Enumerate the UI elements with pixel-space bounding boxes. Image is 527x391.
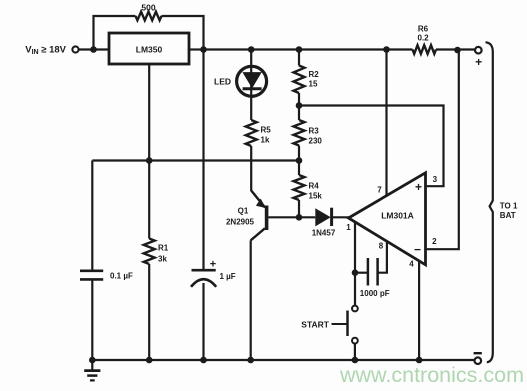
svg-text:R1: R1 [158, 244, 169, 253]
label 15k [309, 192, 323, 201]
label 500 [141, 3, 155, 13]
label 0.2 [417, 34, 429, 43]
resistor R6 [413, 45, 437, 54]
ground symbol [84, 360, 100, 380]
wire Q1 collector down [250, 240, 252, 360]
svg-text:TO 1: TO 1 [500, 201, 518, 210]
wire R1 upper [148, 161, 150, 239]
terminal battery minus [475, 357, 482, 364]
pin label 7 [377, 186, 382, 195]
svg-text:1000 pF: 1000 pF [360, 289, 390, 298]
label minus input [414, 243, 421, 257]
junction adj-R1 node [146, 157, 153, 164]
svg-text:8: 8 [379, 242, 384, 251]
resistor 500 (input-output) [136, 12, 162, 21]
svg-text:15: 15 [309, 80, 318, 89]
svg-text:START: START [301, 319, 330, 329]
svg-text:VIN ≥ 18V: VIN ≥ 18V [25, 45, 66, 57]
junction pin7 branch [383, 46, 390, 53]
wire pin 7 supply [385, 50, 387, 197]
wire switch to ground rail [354, 343, 356, 360]
wire bypass loop right [162, 16, 204, 50]
junction LM350 output node [200, 46, 207, 53]
wire pin 1 down [354, 222, 356, 306]
junction gnd-R1 [146, 357, 153, 364]
svg-text:R2: R2 [309, 70, 320, 79]
label 1000 pF [360, 289, 390, 298]
wire LM350 output [189, 48, 205, 50]
wire bypass loop left/top [94, 16, 136, 50]
svg-text:1: 1 [346, 223, 351, 232]
svg-text:R4: R4 [309, 182, 320, 191]
junction pin1-cap node [352, 269, 359, 276]
pin label 1 [346, 223, 351, 232]
regulator LM350 [109, 33, 189, 64]
capacitor 0.1 uF [80, 271, 103, 280]
wire left branch upper [91, 161, 93, 271]
label TO 1 [500, 201, 518, 210]
wire pin 8 down [378, 241, 387, 272]
pin label 3 [433, 175, 438, 184]
label 1N457 [312, 229, 336, 238]
svg-text:1k: 1k [261, 136, 270, 145]
terminal VIN input [72, 46, 78, 52]
junction gnd-switch [352, 357, 359, 364]
label R4 [309, 182, 320, 191]
svg-text:3: 3 [433, 175, 438, 184]
terminal battery plus [475, 47, 482, 54]
resistor R2 [294, 66, 305, 94]
wire R3 top [298, 106, 300, 121]
label minus [474, 352, 482, 354]
junction VIN node [90, 46, 97, 53]
label plus [475, 55, 482, 69]
svg-text:0.2: 0.2 [417, 34, 429, 43]
junction node R3-R4 (adj net) [296, 157, 303, 164]
junction LED branch [248, 46, 255, 53]
svg-text:4: 4 [409, 260, 414, 269]
junction gnd-cap1 [89, 357, 96, 364]
resistor R5 [246, 120, 257, 146]
wire 1uF branch upper [202, 50, 204, 271]
svg-text:www.cntronics.com: www.cntronics.com [339, 363, 524, 387]
svg-text:+: + [475, 55, 482, 69]
label R5 [261, 126, 272, 135]
junction node base-diode [296, 214, 303, 221]
label 230 [309, 137, 323, 146]
label 15 [309, 80, 318, 89]
svg-text:2: 2 [432, 237, 437, 246]
junction R2 branch [296, 46, 303, 53]
junction gnd-cap2 [200, 357, 207, 364]
svg-text:7: 7 [377, 186, 382, 195]
label 2N2905 [226, 218, 255, 227]
svg-text:R5: R5 [261, 126, 272, 135]
wire R3 bottom [298, 146, 300, 161]
svg-text:R6: R6 [418, 25, 429, 34]
svg-text:R3: R3 [309, 127, 320, 136]
wire left branch lower [91, 279, 93, 360]
label 1 uF [220, 272, 236, 281]
svg-text:3k: 3k [158, 255, 167, 264]
svg-text:2N2905: 2N2905 [226, 218, 255, 227]
label 1k [261, 136, 270, 145]
capacitor 1 uF polarized [191, 270, 216, 287]
wire pin 2 stub (to plus rail) [426, 50, 459, 249]
label 3k [158, 255, 167, 264]
junction pin2 branch [454, 47, 461, 54]
svg-text:LM350: LM350 [136, 45, 163, 55]
label R2 [309, 70, 320, 79]
pin label 4 [409, 260, 414, 269]
svg-text:15k: 15k [309, 192, 323, 201]
junction gnd-collector [247, 357, 254, 364]
pin label 8 [379, 242, 384, 251]
svg-text:LM301A: LM301A [381, 210, 414, 220]
wire R2 bottom [298, 93, 300, 106]
wire diode anode [299, 216, 315, 218]
label R3 [309, 127, 320, 136]
label LM301A [381, 210, 414, 220]
svg-text:1 µF: 1 µF [220, 272, 236, 281]
op-amp U1 LM301A [349, 173, 426, 265]
wire pin 4 down [418, 261, 420, 360]
LED D1 [237, 66, 267, 96]
svg-text:BAT: BAT [500, 211, 516, 220]
wire LED branch upper [250, 50, 252, 121]
wire R1 lower [148, 264, 150, 360]
label R6 [418, 25, 429, 34]
junction gnd-pin4 [416, 357, 423, 364]
wire cap to pin1 [355, 272, 368, 274]
label LM350 [136, 45, 163, 55]
wire pin 3 hook (to R2-R3 node) [299, 106, 444, 187]
bracket to battery [486, 42, 493, 362]
svg-text:500: 500 [141, 3, 155, 13]
svg-text:+: + [210, 258, 216, 270]
svg-text:+: + [415, 180, 422, 194]
wire adj net horizontal [92, 159, 299, 161]
wire top rail (output bus) [204, 48, 413, 50]
label BAT [500, 211, 516, 220]
label LED [214, 76, 231, 86]
label R1 [158, 244, 169, 253]
wire 1uF branch lower [202, 283, 204, 360]
label Q1 [238, 207, 249, 216]
label plus input [415, 180, 422, 194]
wire R4 bottom [298, 200, 300, 217]
svg-text:230: 230 [309, 137, 323, 146]
wire R2 top [298, 50, 300, 66]
svg-text:LED: LED [214, 76, 231, 86]
svg-text:Q1: Q1 [238, 207, 249, 216]
label VIN >= 18V [25, 45, 66, 57]
label START [301, 319, 330, 329]
resistor R3 [294, 120, 305, 146]
capacitor 1000 pF [368, 258, 378, 286]
wire R5 to Q1 emitter [250, 146, 252, 191]
svg-text:−: − [414, 243, 421, 257]
wire ground rail [92, 359, 474, 361]
diode D2 1N457 [315, 208, 331, 227]
switch S1 START pushbutton [348, 306, 358, 344]
wire VIN to LM350 input [79, 48, 109, 50]
junction node R2-R3 [296, 102, 303, 109]
wire diode cathode to op-amp [332, 216, 350, 218]
resistor R4 [294, 175, 305, 200]
label plus of 1uF [210, 258, 216, 270]
pin label 2 [432, 237, 437, 246]
wire START label dash [332, 323, 348, 325]
wire R4 top [298, 161, 300, 176]
wire adj pin of LM350 [148, 64, 150, 161]
transistor Q1 2N2905 [251, 191, 267, 241]
svg-text:0.1 µF: 0.1 µF [110, 271, 133, 280]
wire R6 to plus terminal [436, 48, 475, 50]
watermark www.cntronics.com [339, 363, 524, 387]
svg-text:1N457: 1N457 [312, 229, 336, 238]
resistor R1 [144, 239, 155, 265]
wire Q1 base [268, 216, 299, 218]
label 0.1 uF [110, 271, 133, 280]
